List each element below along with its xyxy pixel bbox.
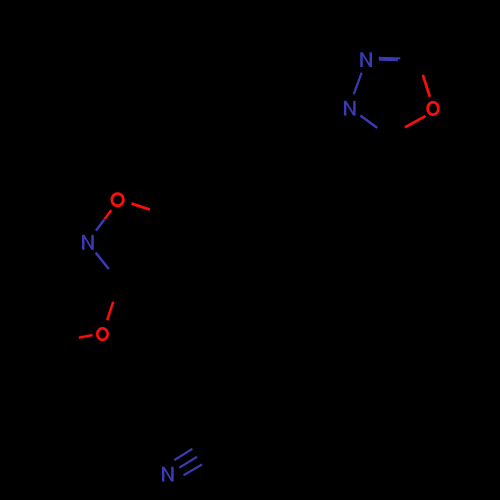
nitrile group (bottom): [162, 449, 202, 482]
bond N2'-C3' blue half: [96, 253, 109, 269]
bond O(methoxy)-CH3 red half: [79, 335, 93, 338]
atom N nitrile label: [162, 467, 174, 482]
bond N3-N4: [354, 73, 362, 95]
atom O methoxy label: [97, 328, 107, 340]
bond C#N triple line 2: [179, 457, 197, 468]
bond C#N triple line 1: [174, 449, 192, 460]
bond N3=C2 double line a: [379, 57, 401, 60]
atom O1' label: [112, 194, 123, 206]
atom O1 label: [428, 102, 439, 114]
atom N4 label: [344, 101, 356, 116]
oxadiazole ring (top right): [344, 52, 438, 128]
methoxy group: [79, 302, 113, 340]
bond O1'-N2' blue half: [96, 220, 104, 231]
bond O1'-N2' red half: [104, 210, 111, 219]
bond C#N triple line 3: [184, 464, 203, 475]
atom N3 label: [360, 52, 372, 67]
bond O1'-C5' red half: [132, 204, 150, 210]
bond C3'-O(methoxy) red half: [107, 302, 113, 321]
isoxazole ring (left): [82, 194, 150, 269]
bond N4-C5 blue half: [360, 116, 377, 128]
bond O1-C5 red half: [405, 116, 426, 127]
bond C2-O1 red half: [423, 75, 430, 97]
bond N3=C2 double line b: [379, 59, 398, 62]
atom N2' label: [82, 235, 94, 250]
